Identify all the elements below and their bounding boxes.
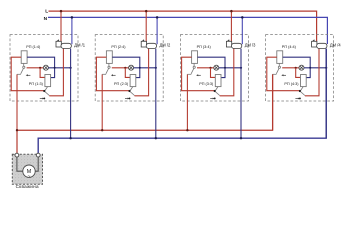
wire N drop box 1 <box>71 17 73 44</box>
wire red feed to relay2 box 1 <box>40 68 45 78</box>
relay2 bottom stub box 2 <box>130 87 133 91</box>
wire L drop box 3 <box>230 11 232 41</box>
switch1 actuator arrow box 2 <box>112 74 115 76</box>
wire motor navy down to bus box 4 <box>325 49 327 139</box>
indicator lamp box 2 <box>129 65 134 70</box>
node lamp-red junction box 4 <box>295 67 297 69</box>
svg-text:L: L <box>45 9 48 15</box>
wire coil left red loop box 1 <box>11 57 44 90</box>
relay RP(4:3) body <box>301 75 307 87</box>
relay coil RP(1:4) body <box>21 51 27 64</box>
switch2 actuator arrow box 4 <box>295 98 298 100</box>
node N junction 3 <box>241 16 244 19</box>
switch2 actuator arrow box 1 <box>40 98 43 100</box>
svg-text:РП (2:3): РП (2:3) <box>114 82 129 86</box>
node navy junction B box 2 <box>155 67 157 69</box>
relay RP(2:3) body <box>130 75 136 87</box>
wire switch2 to motor red box 4 <box>305 48 319 95</box>
node L junction 1 <box>60 10 63 13</box>
well enclosure box <box>12 154 42 184</box>
well internal wiring <box>17 156 38 171</box>
switch2 blade box 4 <box>301 92 305 96</box>
switch1 stub from coil box 1 <box>23 63 25 66</box>
wire coil left red loop box 4 <box>267 57 300 90</box>
switch1 actuator arrow box 4 <box>283 74 286 76</box>
svg-text:РП (1:3): РП (1:3) <box>29 82 44 86</box>
motor starter DM/4 square <box>312 41 317 47</box>
motor starter DM/2 triangle mark <box>141 39 144 41</box>
node navy bus junction box 3 <box>240 137 242 139</box>
switch1 pivot circle box 2 <box>108 66 110 68</box>
svg-text:РП (4:4): РП (4:4) <box>282 45 297 49</box>
module box 2 dashed frame <box>95 35 163 101</box>
wire coil right navy to lamp net box 4 <box>283 57 311 77</box>
motor starter DM/4 triangle mark <box>312 39 315 41</box>
switch2 blade box 3 <box>215 92 219 96</box>
node red bus junction box 2 <box>101 129 103 131</box>
relay coil RP(4:4) body <box>277 51 283 64</box>
wire coil right navy to lamp net box 3 <box>198 57 226 77</box>
wire lamp to motor navy box 1 <box>48 67 70 69</box>
wire L line <box>49 11 317 41</box>
relay2 bottom stub box 4 <box>301 87 304 91</box>
svg-text:ДМ /1: ДМ /1 <box>74 42 85 47</box>
wire lamp to motor navy box 2 <box>134 67 156 69</box>
svg-text:РП (3:3): РП (3:3) <box>199 82 214 86</box>
switch1 blade box 4 <box>276 68 279 73</box>
wire switch1 to lamp red box 1 <box>27 67 44 69</box>
wire lamp to motor navy box 3 <box>219 67 241 69</box>
switch2 blade box 2 <box>130 92 134 96</box>
node L junction 2 <box>145 10 148 13</box>
switch2 lower contact box 3 <box>214 97 216 99</box>
switch2 lower contact box 1 <box>43 97 45 99</box>
node L junction 3 <box>230 10 233 13</box>
switch2 upper contact box 4 <box>299 90 301 92</box>
svg-text:Скважина: Скважина <box>16 184 39 189</box>
switch2 lower contact box 2 <box>129 97 131 99</box>
wire red drop to well terminal <box>16 130 18 153</box>
node red bus junction box 1 <box>16 129 18 131</box>
wire L drop box 1 <box>60 11 62 41</box>
node lamp-red junction box 1 <box>39 67 41 69</box>
indicator lamp box 4 <box>299 65 304 70</box>
switch1 blade box 2 <box>106 68 109 73</box>
wire switch1 to lamp red box 3 <box>197 67 214 69</box>
motor starter DM/3 square <box>226 41 231 47</box>
node navy junction A box 3 <box>224 67 226 69</box>
relay coil RP(3:4) body <box>192 51 198 64</box>
wire motor navy down to bus box 1 <box>70 49 72 139</box>
node navy junction B box 4 <box>325 67 327 69</box>
wire coil left red loop box 2 <box>96 57 129 90</box>
node navy junction A box 2 <box>139 67 141 69</box>
switch2 actuator arrow box 2 <box>125 98 128 100</box>
wire coil right navy to lamp net box 1 <box>27 57 54 77</box>
node navy bus junction box 2 <box>155 137 157 139</box>
svg-text:~: ~ <box>28 174 31 180</box>
switch2 upper contact box 1 <box>43 90 45 92</box>
wire coil left red loop box 3 <box>182 57 215 90</box>
wire red bus to well <box>17 74 273 130</box>
wire red riser to bus box 2 <box>101 74 103 130</box>
wire coil right navy to lamp net box 2 <box>112 57 140 77</box>
wire red riser to bus box 3 <box>186 74 188 130</box>
node navy junction B box 1 <box>70 67 72 69</box>
wire N drop box 2 <box>156 17 158 44</box>
motor starter DM/2 capsule <box>146 43 156 48</box>
wire navy bus to well <box>38 49 326 154</box>
wire red riser to bus box 1 <box>16 74 18 130</box>
switch1 pivot circle box 4 <box>278 66 280 68</box>
wire switch1 link box 4 <box>273 73 277 75</box>
relay2 bottom stub box 1 <box>45 87 48 91</box>
motor starter DM/3 capsule <box>231 43 241 48</box>
svg-text:РП (2:4): РП (2:4) <box>111 45 126 49</box>
svg-text:РП (1:4): РП (1:4) <box>26 45 41 49</box>
switch2 upper contact box 2 <box>128 90 130 92</box>
wire L drop box 2 <box>145 11 147 41</box>
well terminal right <box>36 153 40 157</box>
well motor M <box>23 165 35 177</box>
svg-text:ДМ /3: ДМ /3 <box>245 42 256 47</box>
wire switch1 link box 3 <box>187 73 191 75</box>
node lamp-red junction box 3 <box>209 67 211 69</box>
switch1 pivot circle box 1 <box>23 66 25 68</box>
switch1 actuator arrow box 1 <box>27 74 30 76</box>
wire red riser to bus box 4 <box>272 74 274 130</box>
module box 1 dashed frame <box>10 35 78 101</box>
wire motor navy down to bus box 3 <box>240 49 242 139</box>
relay coil RP(2:4) body <box>106 51 112 64</box>
node navy bus junction box 1 <box>69 137 71 139</box>
switch2 upper contact box 3 <box>214 90 216 92</box>
wire lamp to motor navy box 4 <box>304 67 326 69</box>
svg-text:ДМ /4: ДМ /4 <box>330 42 341 47</box>
node navy junction A box 4 <box>309 67 311 69</box>
switch1 stub from coil box 3 <box>193 63 195 66</box>
motor starter DM/2 square <box>141 41 146 47</box>
node navy junction A box 1 <box>54 67 56 69</box>
indicator lamp box 3 <box>214 65 219 70</box>
switch1 actuator arrow box 3 <box>198 74 201 76</box>
node N junction 2 <box>156 16 159 19</box>
wire switch1 to lamp red box 2 <box>112 67 129 69</box>
node navy junction B box 3 <box>240 67 242 69</box>
switch1 pivot circle box 3 <box>193 66 195 68</box>
wire switch1 link box 2 <box>102 73 106 75</box>
wire N drop box 3 <box>241 17 243 44</box>
wire red feed to relay2 box 4 <box>296 68 301 78</box>
switch2 lower contact box 4 <box>299 97 301 99</box>
switch2 blade box 1 <box>45 92 49 96</box>
switch1 stub from coil box 4 <box>278 63 280 66</box>
wire switch2 to motor red box 1 <box>49 48 63 95</box>
indicator lamp box 1 <box>43 65 48 70</box>
motor starter DM/1 triangle mark <box>56 39 59 41</box>
relay2 bottom stub box 3 <box>216 87 219 91</box>
relay RP(1:3) body <box>45 75 51 87</box>
svg-text:ДМ /2: ДМ /2 <box>160 42 171 47</box>
svg-text:РП (4:3): РП (4:3) <box>284 82 299 86</box>
wire switch2 to motor red box 3 <box>220 48 234 95</box>
switch1 blade box 3 <box>191 68 194 73</box>
svg-text:РП (3:4): РП (3:4) <box>197 45 212 49</box>
motor starter DM/4 capsule <box>317 43 327 48</box>
node lamp-red junction box 2 <box>124 67 126 69</box>
svg-text:N: N <box>44 16 48 22</box>
wire switch1 link box 1 <box>17 73 21 75</box>
node N junction 1 <box>71 16 74 19</box>
wire red feed to relay2 box 2 <box>125 68 130 78</box>
motor starter DM/3 triangle mark <box>227 39 230 41</box>
wire N line <box>48 17 327 44</box>
wire motor navy down to bus box 2 <box>155 49 157 139</box>
well terminal left <box>15 153 19 157</box>
switch1 blade box 1 <box>21 68 24 73</box>
motor starter DM/1 square <box>56 41 61 47</box>
module box 3 dashed frame <box>180 35 248 101</box>
switch2 actuator arrow box 3 <box>210 98 213 100</box>
module box 4 dashed frame <box>266 35 334 101</box>
node red bus junction box 3 <box>186 129 188 131</box>
wire switch1 to lamp red box 4 <box>282 67 299 69</box>
motor starter DM/1 capsule <box>61 43 71 48</box>
relay RP(3:3) body <box>215 75 221 87</box>
wire red feed to relay2 box 3 <box>211 68 216 78</box>
wire switch2 to motor red box 2 <box>135 48 149 95</box>
switch1 stub from coil box 2 <box>108 63 110 66</box>
